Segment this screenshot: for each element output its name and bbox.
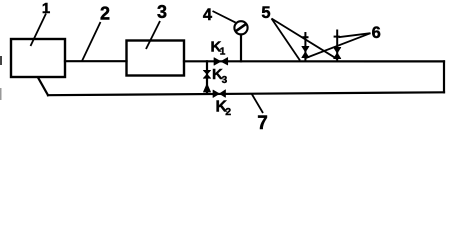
scan smudge left edge lower (0, 88, 2, 100)
valve K1 bowtie (214, 58, 228, 66)
valve A hourglass (302, 46, 309, 57)
leader to 2 (82, 22, 101, 61)
valve A (label 5/6) stem (304, 32, 306, 62)
svg-text:1: 1 (42, 0, 50, 17)
svg-text:3: 3 (157, 2, 167, 22)
wire stem of gauge (240, 35, 242, 62)
svg-text:2: 2 (225, 106, 231, 118)
valve K2 bowtie (213, 90, 226, 98)
svg-text:4: 4 (203, 6, 213, 24)
gauge needle (236, 24, 247, 32)
K3 branch bottom arrow (203, 84, 210, 92)
valve B hourglass (334, 47, 341, 58)
wire K3 branch vertical (206, 61, 208, 94)
wire slant from box1 bottom (38, 78, 48, 96)
valve A top tick (302, 36, 308, 38)
leader 6 to valve A base (305, 33, 371, 58)
wire right edge (443, 61, 445, 92)
leader 5 to valve A base (272, 19, 301, 61)
svg-text:6: 6 (372, 24, 381, 42)
scan smudge left edge upper (0, 56, 2, 65)
wire bottom pipe 7 (48, 92, 444, 95)
valve B (label 5/6) stem (336, 30, 338, 62)
wire top pipe (184, 60, 444, 62)
leader 6 to valve B top (339, 33, 371, 37)
box 1 (pump unit) (11, 39, 65, 77)
leader to 7 (252, 94, 264, 114)
valve K3 hourglass (203, 70, 210, 78)
leader 5 to valve B base (272, 19, 337, 59)
gauge 4 circle (234, 21, 247, 34)
leader to 1 (31, 14, 47, 47)
svg-text:7: 7 (257, 113, 268, 132)
svg-text:3: 3 (222, 75, 228, 86)
box 3 (chamber) (127, 41, 185, 76)
svg-text:1: 1 (220, 47, 226, 58)
leader to 4 (213, 11, 236, 23)
wire box1 to box3 (65, 60, 127, 62)
valve B top tick (334, 36, 340, 38)
leader to 3 (146, 21, 160, 49)
svg-text:5: 5 (261, 4, 270, 22)
svg-text:2: 2 (100, 3, 110, 23)
